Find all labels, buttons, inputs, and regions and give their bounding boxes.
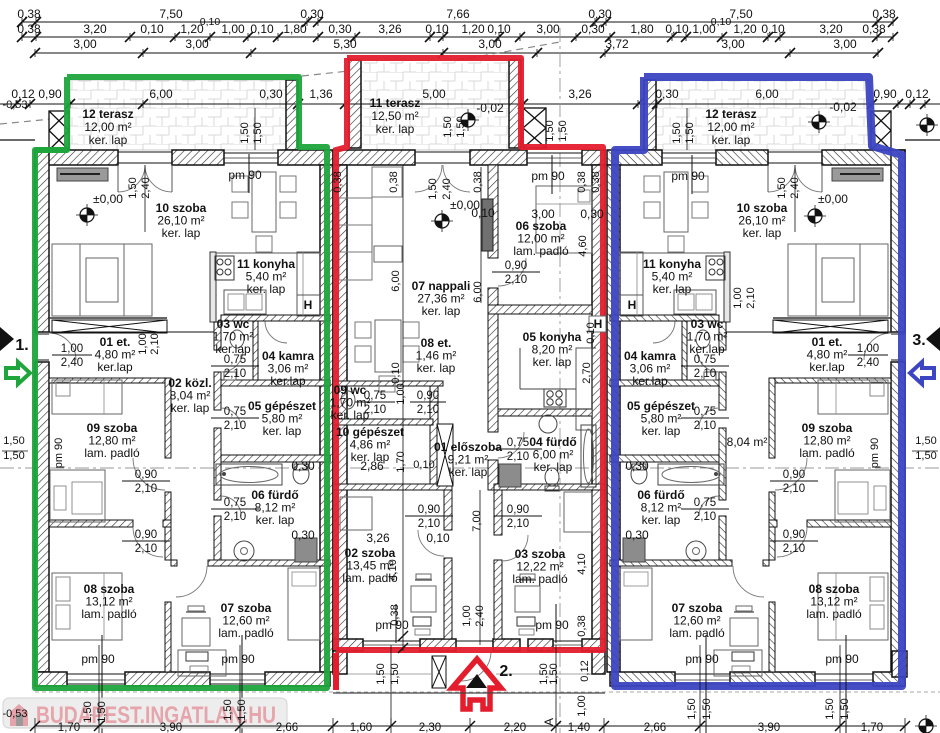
svg-text:2,10: 2,10 [224, 420, 246, 432]
svg-text:1,50: 1,50 [252, 122, 264, 143]
svg-text:2,10: 2,10 [745, 287, 757, 308]
svg-text:1,50: 1,50 [96, 701, 108, 722]
bed 06 szoba [536, 186, 592, 253]
kitchen middle counter [519, 348, 521, 389]
svg-text:0,10: 0,10 [665, 22, 689, 36]
svg-text:0,30: 0,30 [291, 459, 315, 473]
svg-text:H: H [304, 298, 313, 312]
svg-text:0,75: 0,75 [224, 406, 246, 418]
svg-text:1,20: 1,20 [733, 22, 757, 36]
svg-text:lam. padló: lam. padló [84, 446, 140, 460]
svg-text:1,80: 1,80 [630, 22, 654, 36]
svg-text:1,36: 1,36 [309, 87, 333, 101]
svg-text:lam. padló: lam. padló [81, 607, 137, 621]
svg-text:1,50: 1,50 [824, 698, 836, 719]
svg-text:pm 90: pm 90 [531, 169, 565, 183]
svg-text:2,40: 2,40 [61, 357, 83, 369]
middle unit interior walls [488, 165, 498, 258]
svg-text:2,40: 2,40 [441, 178, 453, 199]
svg-text:0,75: 0,75 [364, 390, 386, 402]
svg-text:0,75: 0,75 [224, 354, 246, 366]
svg-text:0,75: 0,75 [694, 354, 716, 366]
svg-text:2,10: 2,10 [364, 404, 386, 416]
svg-text:0,30: 0,30 [291, 528, 315, 542]
svg-text:1,00: 1,00 [692, 22, 716, 36]
svg-text:1,50: 1,50 [236, 699, 248, 720]
svg-text:4,60: 4,60 [577, 235, 589, 256]
svg-text:A: A [542, 718, 556, 726]
svg-text:0,90: 0,90 [783, 529, 805, 541]
svg-text:0,10: 0,10 [413, 459, 434, 471]
wc fixtures [230, 330, 244, 348]
svg-text:0,10: 0,10 [140, 22, 164, 36]
svg-text:pm 90: pm 90 [53, 438, 65, 469]
svg-text:1,80: 1,80 [283, 22, 307, 36]
svg-text:0,75: 0,75 [507, 437, 529, 449]
svg-text:3,20: 3,20 [819, 22, 843, 36]
svg-text:lam. padló: lam. padló [799, 446, 855, 460]
svg-text:0,12: 0,12 [579, 660, 591, 681]
svg-text:1,00: 1,00 [61, 343, 83, 355]
svg-text:0,10: 0,10 [471, 206, 495, 220]
svg-text:1,50: 1,50 [839, 698, 851, 719]
svg-text:pm 90: pm 90 [825, 652, 859, 666]
furniture: bed 08 szoba [52, 573, 122, 640]
terrace 11 middle: tiles [349, 60, 521, 150]
svg-text:0,90: 0,90 [507, 504, 529, 516]
svg-text:3,00: 3,00 [531, 207, 555, 221]
svg-text:0,75: 0,75 [694, 406, 716, 418]
svg-text:ker. lap: ker. lap [642, 513, 681, 527]
boiler H box [297, 295, 320, 316]
svg-text:pm 90: pm 90 [228, 168, 262, 182]
furniture: 07 szoba bed/desks [288, 568, 320, 640]
svg-text:pm 90: pm 90 [535, 618, 569, 632]
svg-text:ker. lap: ker. lap [449, 465, 488, 479]
svg-text:7,00: 7,00 [471, 510, 483, 531]
svg-text:1,50: 1,50 [239, 122, 251, 143]
right unit geometry (mirror of left) [607, 150, 905, 686]
svg-text:2,10: 2,10 [224, 511, 246, 523]
svg-text:12,00 m²: 12,00 m² [707, 120, 754, 134]
svg-text:2,10: 2,10 [149, 333, 161, 354]
svg-text:1,50: 1,50 [915, 435, 936, 447]
svg-text:ker. lap: ker. lap [422, 304, 461, 318]
svg-text:ker. lap: ker. lap [642, 424, 681, 438]
svg-text:1,00: 1,00 [395, 383, 407, 404]
terrace 12 left: tiles [70, 80, 298, 150]
svg-text:2,40: 2,40 [140, 177, 152, 198]
svg-text:-0,02: -0,02 [476, 101, 504, 115]
svg-text:2,10: 2,10 [505, 274, 527, 286]
svg-text:1,00: 1,00 [857, 343, 879, 355]
svg-text:1,50: 1,50 [3, 450, 24, 462]
svg-text:1,50: 1,50 [671, 122, 683, 143]
svg-text:0,38: 0,38 [17, 7, 41, 21]
left unit outer walls [35, 150, 118, 165]
svg-text:ker.lap: ker.lap [809, 360, 845, 374]
svg-text:0,30: 0,30 [259, 87, 283, 101]
svg-text:0,90: 0,90 [135, 529, 157, 541]
svg-text:ker. lap: ker. lap [533, 355, 572, 369]
svg-text:3,26: 3,26 [378, 22, 402, 36]
svg-text:0,10: 0,10 [585, 322, 597, 343]
svg-text:1,50: 1,50 [82, 701, 94, 722]
svg-text:ker. lap: ker. lap [743, 226, 782, 240]
svg-text:-0,53: -0,53 [2, 708, 27, 720]
svg-text:0,10: 0,10 [250, 22, 274, 36]
svg-text:0,90: 0,90 [417, 390, 439, 402]
svg-text:0,10: 0,10 [761, 22, 785, 36]
svg-text:0,10: 0,10 [426, 531, 450, 545]
svg-text:2,10: 2,10 [783, 483, 805, 495]
svg-text:1,00: 1,00 [137, 333, 149, 354]
svg-text:0,38: 0,38 [472, 171, 484, 192]
svg-text:ker.lap: ker.lap [270, 374, 306, 388]
svg-text:7,66: 7,66 [446, 7, 470, 21]
svg-text:3,26: 3,26 [568, 87, 592, 101]
dining table middle [375, 320, 401, 372]
svg-text:±0,00: ±0,00 [818, 192, 848, 206]
svg-text:ker. lap: ker. lap [256, 513, 295, 527]
centerline dash-dot [0, 467, 940, 469]
svg-text:ker. lap: ker. lap [417, 361, 456, 375]
svg-text:0,30: 0,30 [625, 459, 649, 473]
svg-text:0,38: 0,38 [576, 171, 588, 192]
furniture: kitchen [215, 256, 234, 280]
svg-text:ker. lap: ker. lap [89, 133, 128, 147]
svg-text:3,90: 3,90 [758, 722, 780, 733]
furniture: desk 09 szoba [50, 470, 105, 522]
svg-text:1,50: 1,50 [776, 177, 788, 198]
svg-text:0,38: 0,38 [872, 7, 896, 21]
svg-text:0,30: 0,30 [580, 207, 604, 221]
bathroom fixtures [216, 464, 282, 485]
svg-text:ker. lap: ker. lap [534, 460, 573, 474]
svg-text:2,10: 2,10 [694, 511, 716, 523]
svg-text:2,70: 2,70 [581, 362, 593, 383]
svg-text:1,50: 1,50 [427, 178, 439, 199]
svg-text:1,20: 1,20 [180, 22, 204, 36]
terrace 12 right: tiles [644, 80, 870, 150]
svg-text:1,00: 1,00 [732, 287, 744, 308]
svg-text:4,10: 4,10 [576, 553, 588, 574]
svg-text:2,10: 2,10 [783, 543, 805, 555]
svg-text:3.: 3. [912, 332, 925, 349]
green entry arrow [6, 362, 30, 384]
svg-text:0,38: 0,38 [576, 615, 588, 636]
red entry arrow bottom [452, 659, 501, 709]
svg-text:1,50: 1,50 [548, 663, 560, 684]
bed 02 szoba [340, 497, 372, 530]
svg-text:1,00: 1,00 [576, 695, 588, 716]
sloped dashed reference line [0, 42, 560, 124]
svg-text:1,50: 1,50 [915, 450, 936, 462]
misc vertical reference lines bottom [98, 645, 100, 726]
GREEN unit outline (1. lakas) [35, 77, 327, 688]
svg-text:1,50: 1,50 [557, 120, 569, 141]
svg-text:1,50: 1,50 [375, 663, 387, 684]
svg-text:0,90: 0,90 [505, 260, 527, 272]
svg-text:0,38: 0,38 [389, 604, 401, 625]
outside stair symbols [49, 111, 69, 150]
furniture: tv cabinet [57, 168, 108, 181]
svg-text:0,10: 0,10 [390, 362, 402, 383]
svg-text:3,90: 3,90 [160, 722, 182, 733]
svg-text:2,66: 2,66 [644, 722, 666, 733]
svg-text:8,04 m²: 8,04 m² [727, 435, 768, 449]
svg-text:0,90: 0,90 [38, 87, 62, 101]
svg-text:1,50: 1,50 [127, 177, 139, 198]
svg-text:1.: 1. [15, 337, 28, 354]
svg-text:12 terasz: 12 terasz [705, 107, 756, 121]
radiator dark [482, 199, 493, 251]
svg-text:ker.lap: ker.lap [97, 360, 133, 374]
svg-text:ker. lap: ker. lap [263, 424, 302, 438]
wc + gepeszet small fixtures [341, 391, 355, 409]
svg-text:1,70: 1,70 [395, 451, 407, 472]
svg-text:0,38: 0,38 [590, 171, 602, 192]
svg-text:1,50: 1,50 [3, 435, 24, 447]
svg-text:1,50: 1,50 [684, 122, 696, 143]
svg-text:12,50 m²: 12,50 m² [371, 109, 418, 123]
svg-text:11 terasz: 11 terasz [370, 96, 421, 110]
svg-text:1,00: 1,00 [221, 22, 245, 36]
svg-text:2,66: 2,66 [276, 722, 298, 733]
svg-text:2,10: 2,10 [507, 518, 529, 530]
svg-text:2,30: 2,30 [419, 722, 441, 733]
blue entry arrow [910, 362, 934, 384]
svg-text:3,00: 3,00 [536, 22, 560, 36]
svg-text:-0,02: -0,02 [829, 100, 857, 114]
svg-text:1,20: 1,20 [461, 22, 485, 36]
svg-text:0,38: 0,38 [388, 171, 400, 192]
middle furniture: sofa nappali [339, 198, 372, 280]
svg-text:6,00: 6,00 [390, 270, 402, 291]
svg-text:pm 90: pm 90 [685, 652, 719, 666]
svg-text:2,10: 2,10 [507, 451, 529, 463]
svg-text:7,50: 7,50 [159, 7, 183, 21]
svg-text:ker. lap: ker. lap [376, 122, 415, 136]
svg-text:±0,00: ±0,00 [93, 192, 123, 206]
svg-text:0,12: 0,12 [905, 87, 929, 101]
svg-text:2.: 2. [499, 663, 512, 680]
svg-text:lam. padló: lam. padló [218, 626, 274, 640]
svg-text:ker. lap: ker. lap [712, 133, 751, 147]
svg-text:3,00: 3,00 [721, 37, 745, 51]
svg-text:0,90: 0,90 [783, 469, 805, 481]
svg-text:0,90: 0,90 [135, 469, 157, 481]
svg-text:3,20: 3,20 [83, 22, 107, 36]
furniture: dining table [252, 172, 276, 232]
svg-text:1,40: 1,40 [568, 722, 590, 733]
terrace side wall piers [286, 80, 298, 150]
svg-text:ker. lap: ker. lap [162, 226, 201, 240]
svg-text:1,60: 1,60 [350, 722, 372, 733]
svg-text:2,10: 2,10 [694, 420, 716, 432]
svg-text:-0,53: -0,53 [2, 99, 27, 111]
svg-text:pm 90: pm 90 [221, 652, 255, 666]
svg-text:0,30: 0,30 [625, 528, 649, 542]
svg-text:0,75: 0,75 [224, 497, 246, 509]
furniture: sofa group 10 szoba [52, 244, 152, 316]
svg-text:3,00: 3,00 [478, 37, 502, 51]
middle unit outer walls [333, 150, 415, 165]
svg-text:2,10: 2,10 [224, 368, 246, 380]
svg-text:lam. padló: lam. padló [512, 572, 568, 586]
svg-text:1,50: 1,50 [222, 699, 234, 720]
svg-text:4,10: 4,10 [387, 559, 399, 580]
svg-text:0,38: 0,38 [332, 171, 344, 192]
svg-text:7,50: 7,50 [729, 7, 753, 21]
svg-text:3,00: 3,00 [73, 37, 97, 51]
left unit geometry [35, 150, 333, 686]
svg-text:2,40: 2,40 [857, 357, 879, 369]
svg-text:lam. padló: lam. padló [806, 607, 862, 621]
survey point markers [76, 204, 98, 226]
svg-text:1,50: 1,50 [701, 698, 713, 719]
shaft x-box eloszoba [437, 424, 453, 486]
svg-text:5,00: 5,00 [422, 87, 446, 101]
svg-text:3,00: 3,00 [185, 37, 209, 51]
svg-text:2,10: 2,10 [418, 518, 440, 530]
svg-text:1,70: 1,70 [58, 722, 80, 733]
svg-text:0,75: 0,75 [694, 497, 716, 509]
svg-text:6,00: 6,00 [755, 87, 779, 101]
svg-text:3,26: 3,26 [366, 531, 390, 545]
svg-text:12,00 m²: 12,00 m² [84, 120, 131, 134]
svg-text:lam. padló: lam. padló [669, 626, 725, 640]
svg-text:pm 90: pm 90 [81, 652, 115, 666]
furniture: bed 09 szoba [52, 380, 122, 414]
svg-text:1,50: 1,50 [686, 698, 698, 719]
svg-text:2,10: 2,10 [417, 404, 439, 416]
bathroom 04 furdo fixtures [539, 415, 557, 433]
svg-text:2,86: 2,86 [360, 459, 384, 473]
RED unit outline (2. lakas) [336, 58, 603, 650]
svg-text:ker.lap: ker.lap [632, 374, 668, 388]
svg-text:H: H [628, 298, 637, 312]
svg-text:6,00: 6,00 [472, 281, 484, 302]
svg-text:pm 90: pm 90 [671, 169, 705, 183]
interior walls [49, 317, 167, 319]
desks 02/03 szoba [411, 586, 436, 612]
svg-text:2,10: 2,10 [694, 368, 716, 380]
BLUE unit outline (3. lakas) [615, 77, 902, 686]
entrance arrows and numbers [0, 327, 14, 351]
bottom dimension row [35, 725, 905, 727]
entry porch below [432, 656, 446, 688]
svg-text:0,30: 0,30 [328, 22, 352, 36]
svg-text:6,00: 6,00 [149, 87, 173, 101]
svg-text:2,10: 2,10 [135, 483, 157, 495]
svg-text:pm 90: pm 90 [869, 438, 881, 469]
svg-text:0,30: 0,30 [655, 87, 679, 101]
svg-text:12 terasz: 12 terasz [82, 107, 133, 121]
svg-text:ker. lap: ker. lap [653, 282, 692, 296]
svg-text:ker. lap: ker. lap [171, 401, 210, 415]
svg-text:0,90: 0,90 [418, 504, 440, 516]
svg-text:2,10: 2,10 [135, 543, 157, 555]
svg-text:1,50: 1,50 [442, 116, 454, 137]
watermark [3, 698, 287, 728]
svg-text:1,70: 1,70 [861, 722, 883, 733]
svg-text:3,00: 3,00 [833, 37, 857, 51]
svg-text:1,00: 1,00 [461, 605, 473, 626]
svg-text:lam. padló: lam. padló [513, 244, 569, 258]
svg-text:2,20: 2,20 [504, 722, 526, 733]
svg-text:ker. lap: ker. lap [247, 282, 286, 296]
wardrobe 03 szoba [564, 492, 592, 532]
